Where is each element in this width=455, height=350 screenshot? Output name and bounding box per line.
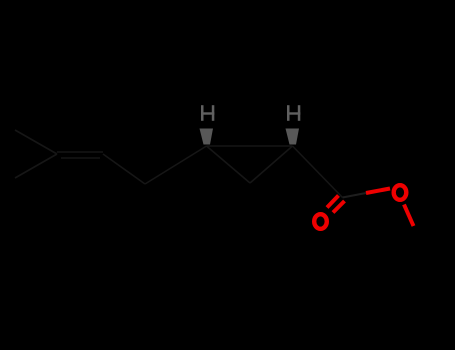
wire C3 to carbonyl carbon	[293, 146, 343, 198]
bond O-CH3	[404, 205, 414, 227]
H label stereocenter 2	[287, 105, 300, 121]
ester C-O bond carbon half	[343, 193, 367, 198]
H label stereocenter 1	[201, 105, 214, 121]
wire vinyl to allylic CH2	[103, 154, 145, 184]
wedge bond H stereocenter 2	[286, 129, 300, 145]
carbonyl double bond C=O line 1	[327, 196, 339, 208]
double bond C=C main line	[57, 151, 103, 153]
methyl CH3 arm lower-left	[15, 154, 57, 178]
ester C-O bond oxygen half	[366, 189, 390, 194]
ester O label	[394, 185, 407, 200]
carbonyl O label	[314, 214, 327, 229]
cyclopropane bond C1-C2 apex	[207, 146, 251, 183]
methyl CH3 arm upper-left	[15, 130, 57, 154]
wire allylic CH2 to stereocenter C1	[145, 146, 207, 184]
cyclopropane bond C1-C3	[207, 145, 293, 147]
cyclopropane bond C2 apex-C3	[250, 146, 293, 183]
wedge bond H stereocenter 1	[200, 129, 214, 145]
carbonyl double bond C=O line 2	[333, 201, 345, 213]
double bond C=C second line	[61, 157, 100, 159]
